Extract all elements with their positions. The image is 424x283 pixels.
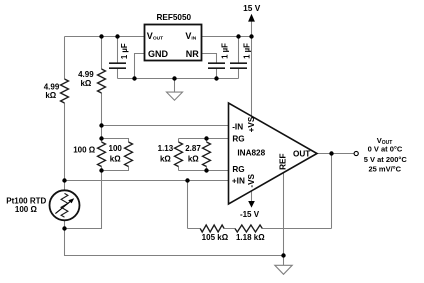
ground symbol under REF5050 [167,92,183,100]
node -IN junction [99,123,103,127]
svg-text:-IN: -IN [232,122,243,131]
wire feedback branch vertical [187,181,189,229]
node pair-bottom junction [99,168,103,172]
wire pair bottom to RTD bottom [65,171,102,229]
svg-text:15 V: 15 V [243,3,261,13]
svg-text:kΩ: kΩ [188,154,199,163]
op-amp U2 INA828 triangle [229,103,318,204]
wire cap C3 leads [238,37,240,79]
svg-text:RG: RG [232,134,244,143]
capacitor C3 1uF [230,63,247,68]
node VIN/+VS junction [249,34,253,38]
node GND-pin rail junction [132,76,136,80]
svg-text:2.87: 2.87 [185,144,201,153]
wire gnd stub bottom [283,256,285,266]
svg-text:kΩ: kΩ [45,91,56,100]
svg-text:NR: NR [186,49,199,59]
wire left pair resistor stubs [101,139,103,171]
wire GND pin to rail [135,54,145,79]
node +IN/feedback junction [185,178,189,182]
svg-text:100 Ω: 100 Ω [15,205,38,214]
wire left pair rails [102,139,129,171]
wire RG resistor 2.87k stubs [206,139,208,171]
RTD sensor Pt100 circle [50,190,80,220]
svg-text:REF5050: REF5050 [157,13,192,22]
resistor R8 1.18k [235,225,262,232]
wire left branch upper to R1 [64,37,66,80]
wire R2 to -IN node [101,93,103,126]
resistor R4 100k [125,142,133,167]
svg-text:INA828: INA828 [237,149,265,158]
svg-text:100 Ω: 100 Ω [73,145,96,154]
node rail/ground junction [172,76,176,80]
svg-text:-VS: -VS [247,173,256,187]
svg-text:Pt100 RTD: Pt100 RTD [6,196,46,205]
resistor R1 4.99k left [61,79,69,103]
svg-text:kΩ: kΩ [80,79,91,88]
wire -IN line [102,125,229,127]
wire branch2 top rail to R2 [101,37,103,70]
resistor R6 2.87k [203,142,211,167]
node VOUT/R2 junction [99,34,103,38]
wire feedback resistor row [188,228,332,230]
node rail/C2 junction [214,76,218,80]
svg-text:OUT: OUT [293,150,310,159]
wire VIN line [202,36,252,38]
svg-text:-15 V: -15 V [240,210,260,219]
resistor R7 105k [200,225,224,232]
wire +IN line [65,180,229,182]
wire cap C1 leads [117,37,119,79]
wire NR pin to cap C2 [202,54,217,64]
wire REF to ground [283,173,285,256]
capacitor C1 1uF [109,63,126,68]
resistor R3 100ohm [98,142,106,167]
resistor R5 1.13k [175,142,183,167]
wire -IN node to pair top [101,126,103,139]
wire -VS drop [251,191,253,202]
svg-text:100: 100 [109,144,123,153]
svg-text:0 V at 0°C: 0 V at 0°C [368,145,403,154]
svg-text:1 µF: 1 µF [243,43,252,59]
wire OUT feedback vertical [331,154,333,229]
resistor R2 4.99k [98,69,106,93]
wire OUT to terminal [317,153,354,155]
svg-text:1.13: 1.13 [158,144,174,153]
svg-text:25 mV/°C: 25 mV/°C [368,165,401,174]
supply +15V arrow [248,14,255,22]
svg-text:RG: RG [232,165,244,174]
svg-text:4.99: 4.99 [44,82,60,91]
node VOUT/C1 junction [115,34,119,38]
IC box REF5050 [145,25,202,61]
svg-text:1 µF: 1 µF [120,43,129,59]
wire decoupling ground rail [118,78,239,80]
svg-text:+IN: +IN [232,176,245,185]
wire +VS supply [251,37,253,117]
node REF/ground junction [281,253,285,257]
wire R1 to RTD top node [64,103,66,191]
node pair-top junction [99,136,103,140]
wire VOUT rail from REF5050 to left branch [65,36,145,38]
svg-text:1 µF: 1 µF [220,43,229,59]
node VIN/C3 junction [236,34,240,38]
ground symbol bottom [275,265,292,274]
node RG-top junction [204,136,208,140]
wire 15V supply drop [251,21,253,36]
svg-text:REF: REF [279,154,288,170]
output terminal circle [354,151,358,155]
wire RG top rail [179,139,229,143]
wire RTD bottom to ground rail [65,220,284,255]
svg-text:105 kΩ: 105 kΩ [202,233,229,242]
svg-text:kΩ: kΩ [160,154,171,163]
wire gnd stub under REF5050 [174,79,176,93]
svg-text:5 V at 200°C: 5 V at 200°C [364,155,408,164]
node OUT junction [329,151,333,155]
RTD variable arrow [55,201,71,214]
svg-text:1.18 kΩ: 1.18 kΩ [236,233,265,242]
svg-text:kΩ: kΩ [110,154,121,163]
svg-text:GND: GND [148,49,169,59]
wire cap C2 bottom lead [216,68,218,78]
capacitor C2 1uF [208,63,225,68]
node RTD-bottom junction [62,226,66,230]
node RG-bottom junction [204,168,208,172]
wire RG bottom rail [179,167,229,171]
svg-text:4.99: 4.99 [78,70,94,79]
RTD zigzag element [61,193,68,217]
svg-text:+VS: +VS [247,116,256,132]
node RTD-top/+IN junction [62,178,66,182]
supply -15V arrow [248,201,255,208]
